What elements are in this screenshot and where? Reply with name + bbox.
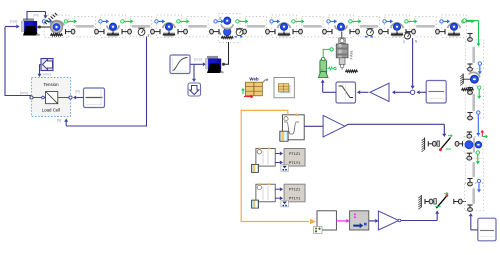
velocity arrow (blue) before roller 397 bbox=[383, 19, 393, 23]
column dashed box A bbox=[465, 40, 483, 69]
speed sensor y bbox=[403, 33, 418, 44]
tension arrow (green) after roller 284 bbox=[292, 19, 305, 23]
wire gain3 to lever2 bbox=[401, 211, 439, 221]
svg-text:[m/s]: [m/s] bbox=[43, 73, 51, 77]
motor M1 shaft bbox=[37, 26, 50, 29]
gain2 triangle (right) bbox=[323, 115, 345, 137]
wall lever2 bbox=[418, 195, 421, 209]
damper lever2 right bbox=[454, 199, 462, 204]
velocity arrow (blue) before roller 284 bbox=[270, 19, 280, 23]
motor M1 housing feedback wire bbox=[27, 12, 48, 21]
column span bar A bbox=[472, 47, 475, 64]
dancer spring to ground bbox=[328, 67, 337, 70]
column span bar C bbox=[472, 94, 475, 112]
dashed frame roller unit x=341 bbox=[329, 15, 354, 38]
tension arrow (green) after roller 56 bbox=[64, 19, 77, 23]
damper left of span 369 bbox=[350, 29, 359, 34]
motor M1 speed input arrow bbox=[5, 25, 20, 29]
column damper D bottom bbox=[467, 179, 472, 186]
svg-text:[m/s]: [m/s] bbox=[10, 19, 18, 23]
column green arrow D bbox=[476, 151, 480, 165]
winder nip dashed frame bbox=[464, 137, 483, 153]
idler roller x=169 bbox=[163, 23, 176, 35]
damper left of span 141 bbox=[122, 29, 131, 34]
tension arrow (green) after roller 113 bbox=[121, 19, 134, 23]
label [m/s] at motor M1 bbox=[10, 19, 18, 23]
tension box right port bbox=[69, 96, 72, 99]
web material record bbox=[242, 82, 263, 98]
arrow reference to junction bbox=[417, 90, 427, 94]
column roller B wall bbox=[460, 74, 473, 91]
column dashed box E bbox=[465, 184, 484, 211]
tension arrow (green) after roller 454 bbox=[462, 19, 475, 23]
winder speed source block bbox=[478, 218, 496, 241]
damper left of span 256 bbox=[237, 29, 246, 34]
damper left of span 425 bbox=[406, 29, 415, 34]
web record swoosh bbox=[263, 79, 268, 83]
column blue arrow E bbox=[477, 179, 481, 192]
magenta frame arrow bbox=[336, 219, 349, 223]
frame convert block bbox=[350, 211, 369, 230]
velocity arrow (blue) before roller 228 bbox=[214, 19, 224, 23]
damper right of span 141 bbox=[151, 29, 160, 34]
column roller B bbox=[469, 72, 480, 83]
support hatch at lead drum bbox=[44, 13, 57, 24]
dashed frame roller unit x=284 bbox=[272, 15, 297, 38]
tension subsystem dashed box bbox=[32, 78, 71, 117]
web span bar x=369 bbox=[360, 25, 379, 28]
damper left of span 84 bbox=[66, 29, 75, 34]
dashed frame nip unit bbox=[219, 14, 241, 43]
dashed frame span unit x=369 bbox=[358, 17, 379, 37]
svg-text:[m/s]: [m/s] bbox=[194, 58, 202, 62]
gain3 triangle (right) bbox=[378, 211, 400, 230]
svg-text:y: y bbox=[403, 40, 405, 44]
damper lever2 left bbox=[425, 199, 433, 204]
speed sensor w2 bbox=[365, 28, 373, 36]
winder nip pair bbox=[465, 138, 482, 153]
svg-text:PT1Z1: PT1Z1 bbox=[289, 188, 300, 192]
svg-text:Load Cell: Load Cell bbox=[42, 108, 61, 113]
speed output interface icon bbox=[188, 83, 201, 96]
F-axis gearbox bbox=[339, 58, 345, 68]
arrow ramp to M2 bbox=[190, 62, 206, 66]
idler roller x=397 bbox=[391, 23, 404, 35]
lever mechanism 1 bbox=[437, 135, 452, 152]
tension box left port bbox=[30, 96, 33, 99]
label Tension bbox=[43, 82, 59, 87]
svg-text:[m/s]: [m/s] bbox=[20, 91, 28, 95]
column damper C bottom bbox=[467, 113, 472, 120]
wire gain2 to lever1 bbox=[345, 124, 447, 137]
velocity arrow (blue) before roller 454 bbox=[440, 19, 450, 23]
roller 341 to gearbox stem bbox=[341, 32, 343, 41]
wire lever2 to column bbox=[462, 201, 466, 203]
svg-text:[N]: [N] bbox=[75, 90, 80, 94]
winder nip dampers bbox=[467, 132, 472, 160]
dashed frame span unit x=141 bbox=[130, 17, 151, 37]
damper left of span 312 bbox=[293, 29, 302, 34]
svg-text:PT1Z1: PT1Z1 bbox=[289, 152, 300, 156]
tension arrow (green) after roller 341 bbox=[349, 19, 362, 23]
label F Axis bbox=[350, 50, 354, 59]
svg-text:Tension: Tension bbox=[43, 82, 59, 87]
wire source to column bbox=[469, 213, 478, 230]
svg-text:F Axis: F Axis bbox=[350, 50, 354, 59]
damper lever1 right bbox=[455, 141, 462, 146]
wire interface to tension box bbox=[38, 65, 42, 78]
column dashed box C bbox=[465, 86, 483, 118]
tension box internal wires bbox=[33, 96, 69, 99]
web span bar x=84 bbox=[75, 25, 94, 28]
damper right of span 369 bbox=[379, 29, 388, 34]
arrow convert to gain3 bbox=[369, 219, 379, 223]
damper right of span 312 bbox=[323, 29, 332, 34]
damper right of span 425 bbox=[436, 29, 445, 34]
pulse source block bbox=[283, 115, 305, 140]
web span bar x=312 bbox=[303, 25, 322, 28]
wire sensor y to junction bbox=[411, 38, 415, 89]
dashed frame span unit x=197 bbox=[187, 17, 208, 37]
label [m/s] below interface bbox=[43, 73, 51, 77]
velocity arrow (blue) before roller 169 bbox=[155, 19, 165, 23]
idler roller x=341 bbox=[335, 23, 348, 30]
column damper C top bbox=[467, 88, 472, 95]
dashed frame roller unit x=56 bbox=[44, 15, 69, 38]
F-axis ground bbox=[346, 70, 358, 72]
label [m/s] at M2 bbox=[194, 58, 202, 62]
damper right of span 256 bbox=[266, 29, 275, 34]
ramp block bbox=[170, 55, 190, 74]
damper right of span 197 bbox=[210, 29, 219, 34]
web span bar x=256 bbox=[247, 25, 266, 28]
nip roller pair (2/1) bbox=[219, 15, 233, 38]
label [m/s] on wire bbox=[20, 91, 28, 95]
F-axis motor cylinder bbox=[336, 44, 348, 58]
svg-text:Web: Web bbox=[249, 77, 259, 82]
column blue arrow A bbox=[478, 62, 482, 75]
column span bar E bbox=[472, 188, 475, 204]
web span bar x=197 bbox=[188, 25, 207, 28]
F-axis bearing bbox=[339, 38, 345, 43]
dashed frame span unit x=312 bbox=[302, 17, 323, 37]
dancer flange port bbox=[330, 48, 333, 51]
PT1 observer group 2 bbox=[252, 183, 306, 208]
gain triangle (left) bbox=[370, 83, 389, 101]
damper right of span 84 bbox=[95, 29, 104, 34]
column damper top bbox=[467, 34, 472, 42]
wire pulse to gain2 bbox=[304, 125, 323, 127]
tension sensor T bbox=[138, 28, 150, 38]
wire speed feedback to M1 bbox=[5, 27, 31, 96]
tension arrow (green) after roller 397 bbox=[405, 19, 418, 23]
idler roller x=454 bbox=[448, 23, 461, 35]
svg-text:[N]: [N] bbox=[57, 119, 62, 123]
wire branch to output icon bbox=[192, 64, 196, 82]
idler roller x=113 bbox=[107, 23, 120, 35]
label [N] bottom bbox=[57, 119, 62, 123]
velocity arrow (blue) before roller 341 bbox=[327, 19, 337, 23]
orange parameter bus bbox=[241, 110, 316, 224]
winder coordinate icon bbox=[481, 131, 488, 138]
dancer actuator bbox=[318, 57, 328, 77]
wire limiter to dancer bbox=[321, 80, 336, 93]
dashed frame roller unit x=113 bbox=[101, 15, 126, 38]
svg-text:PT1Y1: PT1Y1 bbox=[289, 161, 301, 165]
velocity arrow (blue) before roller 56 bbox=[42, 19, 52, 23]
idler roller x=284 bbox=[278, 23, 291, 35]
label dancer bbox=[320, 69, 324, 71]
column damper A bottom bbox=[467, 64, 472, 71]
tension setpoint block bbox=[84, 88, 105, 108]
junction node bbox=[410, 90, 414, 94]
web span bar x=141 bbox=[132, 25, 151, 28]
green wire band to column bbox=[463, 19, 481, 47]
web span bar x=425 bbox=[416, 25, 435, 28]
damper left of span 197 bbox=[178, 29, 187, 34]
driven roller (lead drum) bbox=[51, 21, 65, 36]
damper lever1 left bbox=[428, 141, 436, 146]
column span bar D bbox=[472, 162, 475, 177]
F-axis ground link bbox=[342, 68, 351, 71]
arrow into limiter bbox=[357, 90, 369, 94]
dashed frame roller unit x=169 bbox=[157, 15, 182, 38]
lever mechanism 2 bbox=[434, 192, 449, 208]
measured tension wire bbox=[64, 37, 146, 127]
speed reference block bbox=[426, 81, 446, 104]
speed sensor w1 bbox=[235, 28, 243, 36]
tension arrow (green) after roller 228 bbox=[236, 19, 249, 23]
label Web bbox=[249, 77, 259, 82]
label Load Cell bbox=[42, 108, 61, 113]
pulse block cylinder icon bbox=[280, 131, 288, 141]
dashed frame span unit x=425 bbox=[415, 17, 436, 37]
column damper E bottom bbox=[467, 205, 472, 211]
dashed frame roller unit x=397 bbox=[385, 15, 410, 38]
dashed frame span unit x=256 bbox=[245, 17, 266, 37]
PT1 observer group 1 bbox=[252, 148, 306, 173]
svg-text:[m]: [m] bbox=[34, 13, 39, 17]
label [m] bbox=[34, 13, 39, 17]
speed input interface icon bbox=[41, 59, 53, 71]
column dashed box D bbox=[465, 159, 483, 183]
nip drive motor M2 bbox=[206, 56, 224, 73]
label [N] right bbox=[75, 90, 80, 94]
column green arrow B bbox=[477, 86, 481, 99]
wall lever1 bbox=[422, 138, 425, 152]
limiter block bbox=[336, 82, 356, 103]
wire M2 to nip roller bbox=[222, 42, 229, 66]
dancer flange wire bbox=[323, 49, 330, 57]
tension arrow (green) after roller 169 bbox=[177, 19, 190, 23]
column blue arrow C bbox=[476, 111, 480, 136]
radius calc block bbox=[317, 211, 336, 230]
velocity arrow (blue) before roller 113 bbox=[99, 19, 109, 23]
load cell block bbox=[46, 92, 58, 104]
svg-text:PT1Y1: PT1Y1 bbox=[289, 197, 301, 201]
arrow junction to gain bbox=[392, 90, 411, 94]
unwind motor M1 bbox=[22, 18, 40, 35]
dashed frame span unit x=84 bbox=[74, 17, 95, 37]
web record framed bbox=[274, 77, 294, 97]
arrow setpoint to load cell bbox=[73, 96, 84, 100]
dashed frame roller unit x=454 bbox=[442, 15, 467, 38]
radius block corner icon bbox=[314, 226, 322, 233]
